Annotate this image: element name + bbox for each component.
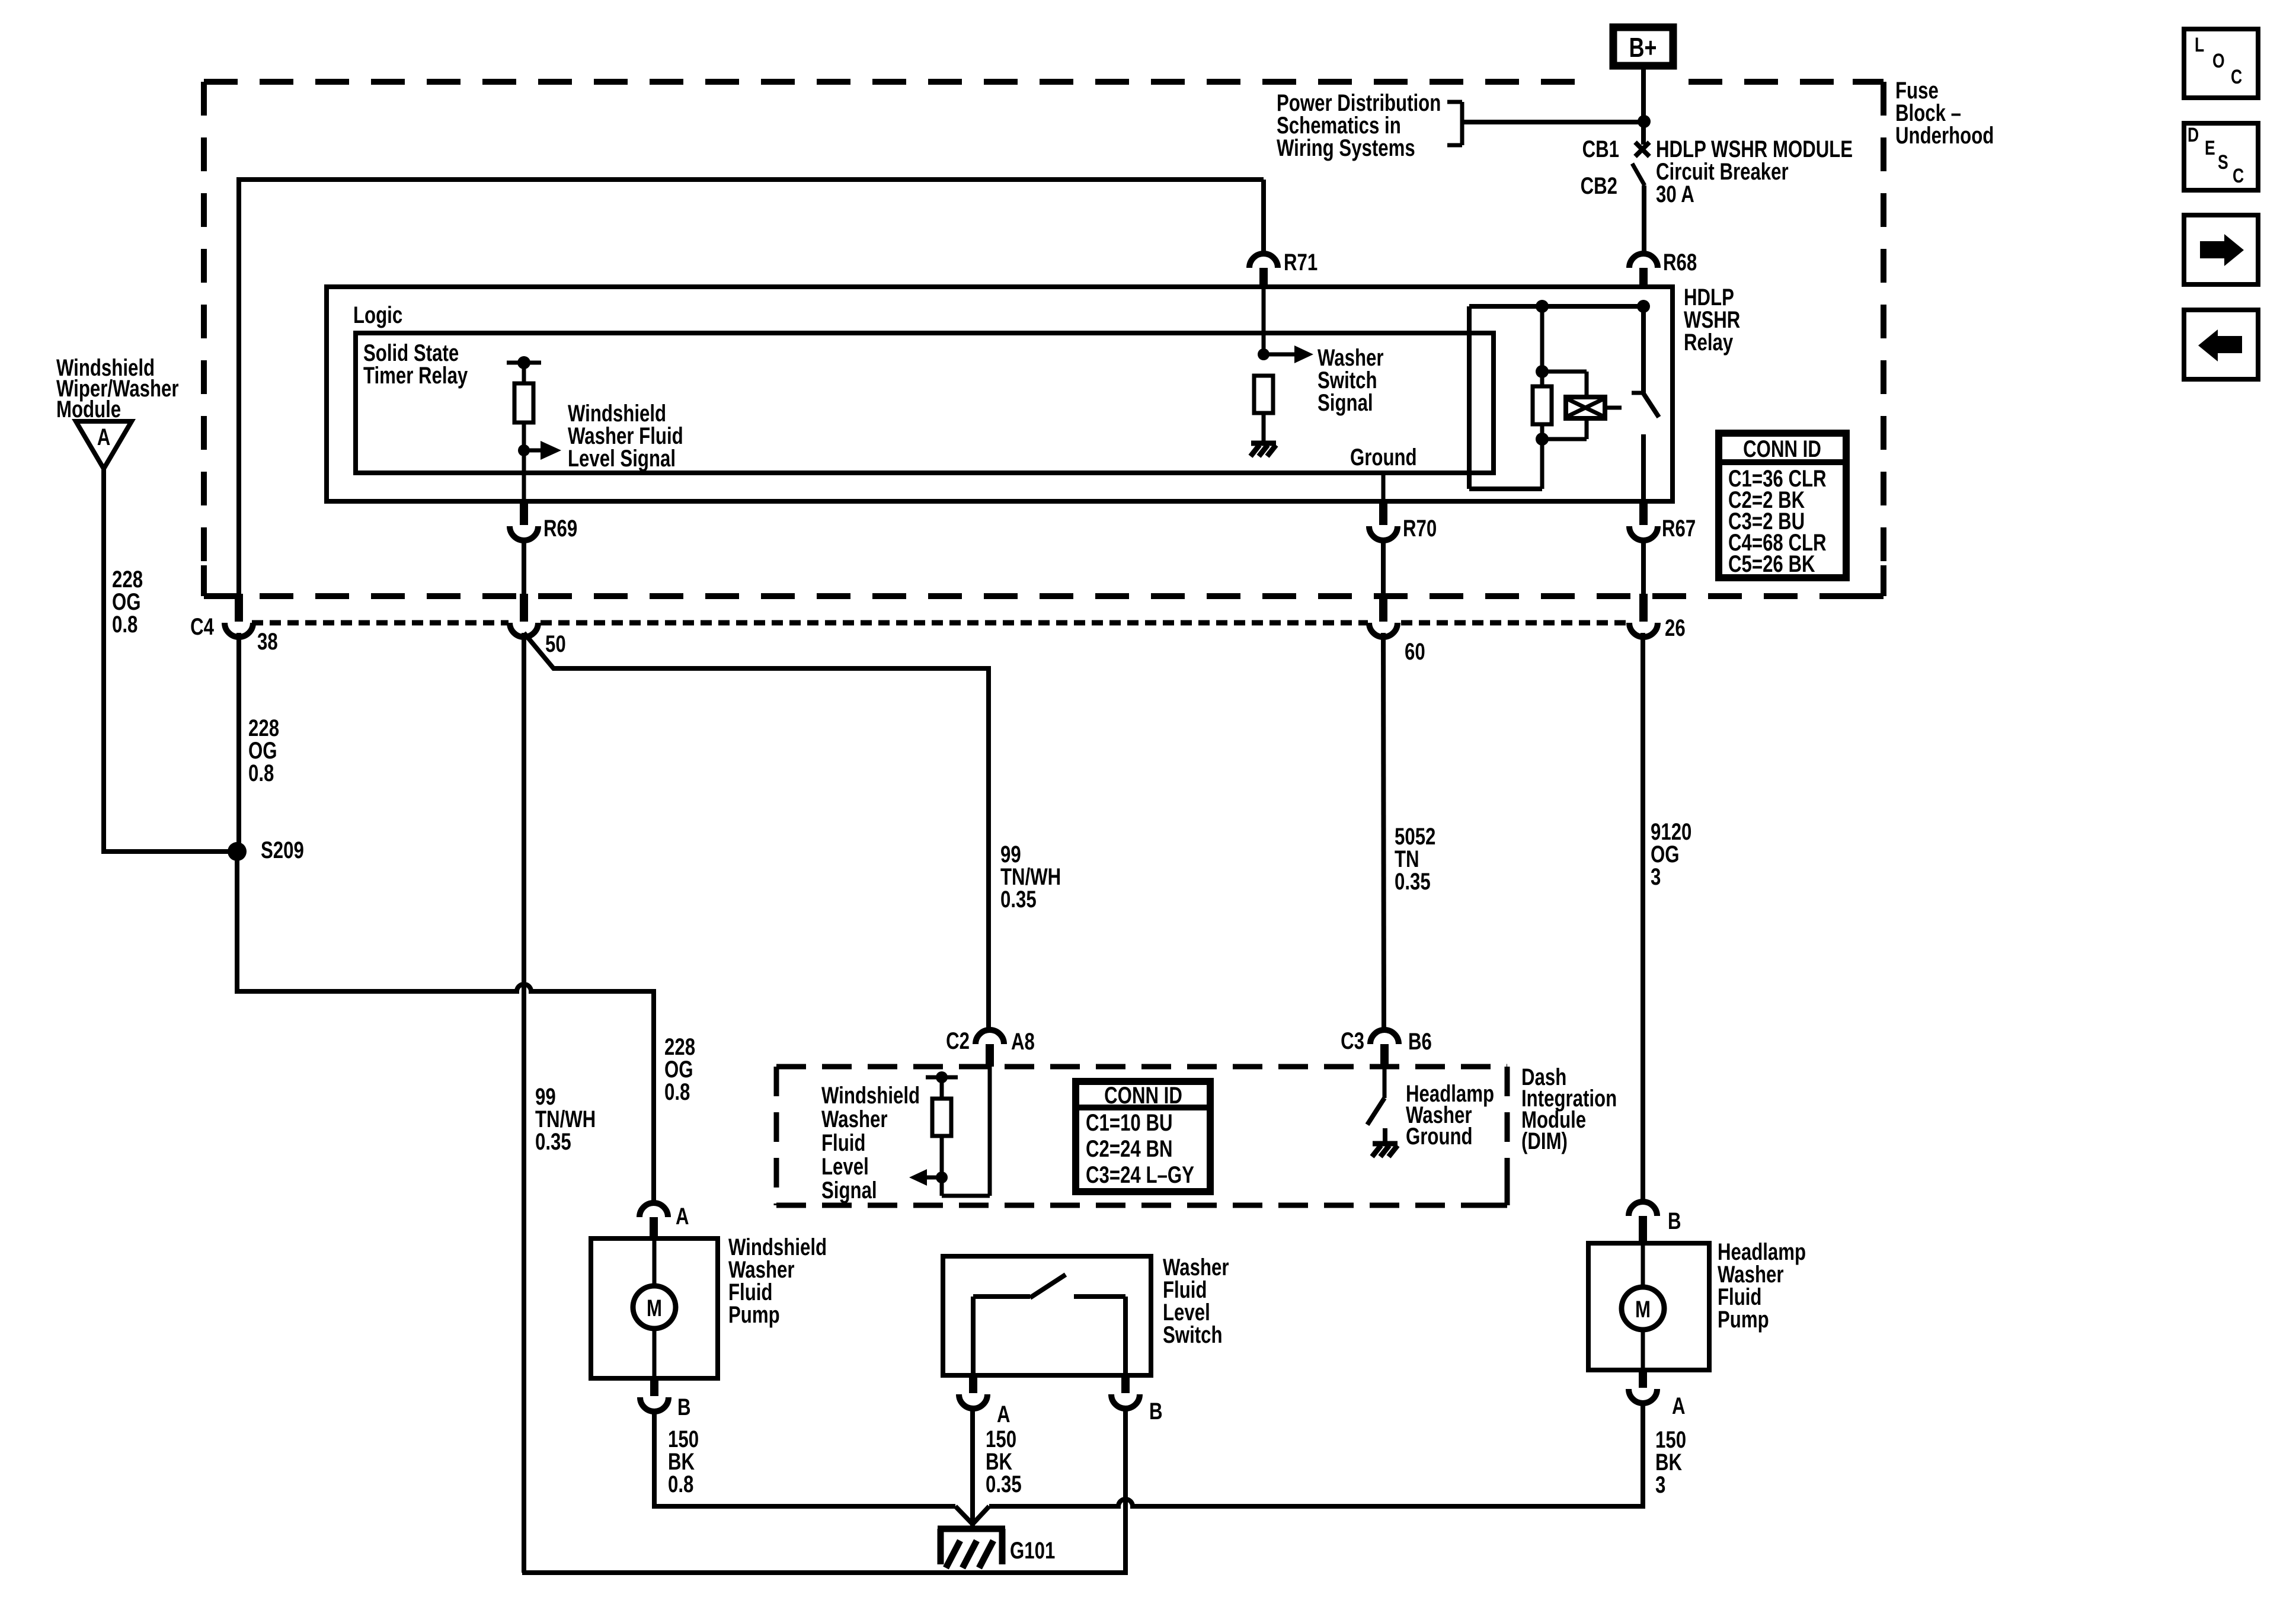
wire CB2 to R68 (1642, 185, 1646, 254)
svg-text:C3=24 L–GY: C3=24 L–GY (1086, 1161, 1194, 1188)
CONN ID table DIM (1076, 1081, 1210, 1192)
svg-text:Pump: Pump (728, 1301, 780, 1328)
svg-text:CB2: CB2 (1581, 172, 1617, 199)
solid state timer relay inner box (356, 333, 1494, 473)
svg-text:O: O (2212, 50, 2225, 72)
LOC icon box (2184, 29, 2258, 98)
wire S209 down (235, 852, 239, 991)
wire R67 to pin 26 (1641, 539, 1646, 595)
wire R70 to pin 60 (1381, 539, 1386, 595)
svg-text:M: M (1635, 1296, 1651, 1323)
B+ terminal (1613, 27, 1673, 66)
junction dot washer switch signal (1258, 348, 1269, 360)
svg-text:R69: R69 (543, 515, 577, 542)
svg-text:Ground: Ground (1406, 1123, 1473, 1150)
back arrow icon box (2184, 310, 2258, 379)
washer fluid level switch box (943, 1256, 1151, 1375)
svg-text:R71: R71 (1284, 249, 1318, 276)
svg-text:Signal: Signal (1318, 389, 1373, 416)
connector B headlamp washer pump (1629, 1202, 1681, 1244)
windshield washer fluid level signal arrow (524, 441, 561, 460)
junction dot coil top (1536, 365, 1549, 378)
DIM T-bar (926, 1076, 958, 1080)
svg-text:G101: G101 (1010, 1537, 1055, 1564)
wire coil bottom to relay frame (1540, 439, 1544, 489)
wire bracket to B+ junction (1462, 120, 1643, 124)
power distribution bracket (1447, 102, 1462, 145)
svg-text:S209: S209 (261, 837, 304, 863)
headlamp pump motor M (1622, 1287, 1664, 1330)
connector A level switch (959, 1375, 1011, 1427)
connector row dotted line (252, 620, 509, 626)
washer pump motor M (633, 1286, 676, 1329)
svg-text:C2: C2 (946, 1028, 970, 1054)
svg-text:(DIM): (DIM) (1521, 1128, 1568, 1154)
headlamp pump motor wires (1641, 1243, 1645, 1370)
svg-text:Pump: Pump (1718, 1306, 1769, 1333)
logic outer box (327, 287, 1673, 501)
wire resistor to ground (1263, 288, 1264, 442)
svg-text:C5=26 BK: C5=26 BK (1728, 550, 1815, 577)
svg-text:0.35: 0.35 (986, 1471, 1022, 1497)
svg-text:0.35: 0.35 (535, 1128, 571, 1155)
washer switch signal arrow (1264, 345, 1313, 363)
wire washer pump B down (652, 1411, 657, 1506)
svg-text:A: A (997, 1401, 1011, 1427)
svg-text:R70: R70 (1403, 515, 1437, 542)
relay coil (1566, 397, 1605, 418)
ground symbol in logic box (1251, 441, 1276, 446)
svg-text:B: B (677, 1394, 691, 1420)
svg-text:Relay: Relay (1684, 329, 1733, 356)
wire down to washer pump A (651, 991, 656, 1202)
svg-text:0.8: 0.8 (668, 1471, 693, 1497)
svg-text:A: A (97, 424, 111, 450)
windshield washer fluid pump box (591, 1238, 718, 1378)
svg-text:Washer: Washer (821, 1106, 888, 1132)
wire T-bar to resistor (522, 363, 526, 383)
svg-text:B+: B+ (1629, 33, 1657, 63)
wire pin 26 to headlamp pump (1641, 633, 1645, 1202)
wire headlamp pump A down (1641, 1403, 1645, 1506)
svg-text:26: 26 (1665, 614, 1686, 641)
relay switch fixed wire (1641, 306, 1646, 392)
svg-text:R68: R68 (1663, 249, 1697, 276)
wire relay coil branch top (1540, 306, 1544, 372)
connector R68 (1629, 249, 1697, 289)
wire module to S209 (101, 849, 237, 854)
svg-text:30 A: 30 A (1656, 181, 1694, 207)
junction dot timer relay top (517, 356, 530, 369)
DIM ground contact stub (1383, 1128, 1387, 1142)
connector R69 (510, 502, 577, 542)
ground bus right segment with hop (989, 1499, 1645, 1506)
wire level switch A to ground (970, 1408, 975, 1523)
DIM headlamp washer ground switch blade (1367, 1098, 1384, 1125)
connector R71 (1249, 249, 1318, 289)
wire module down (101, 469, 106, 852)
level switch blade (1030, 1275, 1066, 1298)
wire R71 drop (1261, 180, 1266, 254)
connector R67 (1629, 502, 1696, 542)
CONN ID table fuse block (1719, 433, 1846, 578)
svg-text:L: L (2195, 34, 2204, 56)
junction dot DIM signal (936, 1172, 948, 1183)
DIM A8 wire (942, 1058, 990, 1196)
wire R71 into logic (1262, 288, 1266, 354)
ground net wire (1382, 473, 1386, 501)
svg-text:Signal: Signal (821, 1177, 877, 1204)
wire S209 to washer pump with hop (235, 984, 656, 991)
level switch left leg (973, 1297, 1030, 1375)
svg-text:C4: C4 (190, 613, 214, 640)
svg-text:0.8: 0.8 (248, 760, 274, 786)
DIM signal arrow left (909, 1169, 942, 1186)
next arrow icon box (2184, 215, 2258, 284)
svg-text:Windshield: Windshield (821, 1082, 920, 1109)
svg-text:C2=24 BN: C2=24 BN (1086, 1135, 1173, 1162)
svg-text:0.35: 0.35 (1395, 868, 1431, 895)
junction dot relay top right (1637, 300, 1650, 313)
DIM resistor (932, 1099, 951, 1136)
fuse block - underhood dashed outline (204, 79, 1593, 85)
svg-text:0.8: 0.8 (112, 611, 137, 638)
svg-text:Logic: Logic (353, 302, 402, 328)
svg-text:Wiring Systems: Wiring Systems (1277, 135, 1415, 161)
svg-text:E: E (2205, 137, 2215, 159)
connector pin 26 (1629, 594, 1686, 641)
ground bus V right (973, 1506, 989, 1524)
circuit breaker blade (1632, 164, 1645, 185)
connector B level switch (1111, 1375, 1163, 1425)
resistor washer switch (1254, 376, 1273, 413)
svg-text:Level Signal: Level Signal (568, 445, 676, 472)
connector pin 50 (510, 594, 566, 657)
svg-text:3: 3 (1651, 863, 1661, 890)
wire DIM T-bar to resistor (940, 1077, 944, 1099)
wire pin 50 straight down (522, 633, 526, 1573)
connector R70 (1369, 502, 1437, 542)
wire B+ down to junction (1641, 69, 1646, 121)
bottom return wire (522, 1570, 1128, 1575)
wire ground point down (970, 1523, 975, 1529)
headlamp washer fluid pump box (1588, 1243, 1709, 1370)
wire level switch B down (1123, 1408, 1128, 1573)
svg-text:D: D (2188, 124, 2199, 146)
timer relay T-bar (507, 361, 541, 365)
svg-text:R67: R67 (1662, 515, 1696, 542)
svg-text:A: A (676, 1203, 689, 1230)
junction dot fluid level signal (518, 444, 530, 456)
module triangle A (76, 421, 132, 469)
svg-text:Fluid: Fluid (821, 1129, 865, 1156)
junction dot relay top left (1536, 300, 1549, 313)
svg-text:38: 38 (257, 628, 278, 655)
wire junction to CB1 (1641, 121, 1646, 145)
level switch right contact (1074, 1297, 1125, 1375)
connector C2 A8 (946, 1028, 1035, 1067)
svg-text:Ground: Ground (1350, 444, 1417, 470)
svg-text:C1=10 BU: C1=10 BU (1086, 1109, 1173, 1136)
junction dot at B+ wire (1638, 115, 1651, 128)
ground bus left segment (652, 1504, 955, 1509)
washer pump motor wires (653, 1238, 657, 1378)
dash integration module dashed box (776, 1064, 1507, 1070)
wire resistor to junction (522, 422, 526, 450)
DIM B6 wire (1383, 1058, 1387, 1098)
wire left vertical to connector 38 (236, 180, 241, 595)
connector A headlamp washer pump (1629, 1370, 1686, 1419)
svg-text:A8: A8 (1011, 1028, 1035, 1055)
relay switch lower wire (1641, 434, 1646, 501)
svg-text:C: C (2233, 165, 2244, 187)
relay resistor (1533, 372, 1552, 439)
junction dot coil bottom (1536, 433, 1549, 446)
svg-text:Switch: Switch (1163, 1321, 1223, 1348)
splice S209 (228, 837, 304, 863)
connector B windshield washer pump (640, 1378, 691, 1420)
connector C4 pin 38 (190, 594, 278, 655)
svg-text:M: M (647, 1295, 662, 1321)
circuit breaker CB1/CB2 contact X (1635, 142, 1649, 156)
svg-text:0.8: 0.8 (664, 1078, 690, 1105)
wire R69 to pin 50 (522, 539, 526, 595)
svg-text:B6: B6 (1408, 1028, 1432, 1055)
HDLP WSHR relay outline (1469, 306, 1643, 489)
svg-text:50: 50 (545, 630, 566, 657)
junction dot DIM T-bar (936, 1071, 948, 1083)
svg-text:60: 60 (1405, 638, 1425, 665)
connector A windshield washer pump (639, 1203, 689, 1241)
svg-text:Timer Relay: Timer Relay (363, 362, 468, 389)
DESC icon box (2184, 123, 2258, 190)
svg-text:C3: C3 (1341, 1028, 1364, 1054)
svg-text:CB1: CB1 (1582, 136, 1619, 162)
wire top horizontal to R71 (236, 177, 1264, 182)
connector pin 60 (1369, 594, 1425, 665)
relay switch pivot tick (1632, 391, 1646, 395)
coil parallel wires (1542, 372, 1587, 439)
connector C3 B6 (1341, 1028, 1432, 1067)
wire fluid level signal down (522, 450, 526, 501)
svg-text:B: B (1668, 1208, 1681, 1234)
wire 38 to S209 (236, 633, 241, 852)
wire pin 50 jog to DIM (524, 633, 989, 1031)
coil actuator link (1605, 406, 1622, 410)
wire DIM resistor down (940, 1136, 944, 1177)
svg-text:B: B (1149, 1398, 1163, 1425)
ground bus V left (955, 1506, 973, 1524)
svg-text:Level: Level (821, 1153, 869, 1180)
svg-text:CONN ID: CONN ID (1743, 436, 1821, 462)
DIM ground symbol (1373, 1141, 1398, 1147)
resistor fluid level (514, 383, 533, 422)
ground G101 symbol (938, 1529, 1005, 1568)
svg-text:CONN ID: CONN ID (1104, 1082, 1182, 1109)
svg-text:Module: Module (56, 396, 121, 422)
wire pin 60 to C3 (1383, 633, 1384, 1031)
svg-text:A: A (1672, 1393, 1686, 1419)
svg-text:3: 3 (1655, 1471, 1665, 1498)
svg-text:Underhood: Underhood (1895, 122, 1994, 149)
svg-text:C: C (2231, 66, 2242, 88)
svg-text:0.35: 0.35 (1000, 886, 1037, 913)
relay switch blade (1642, 392, 1659, 417)
svg-text:S: S (2218, 151, 2228, 174)
